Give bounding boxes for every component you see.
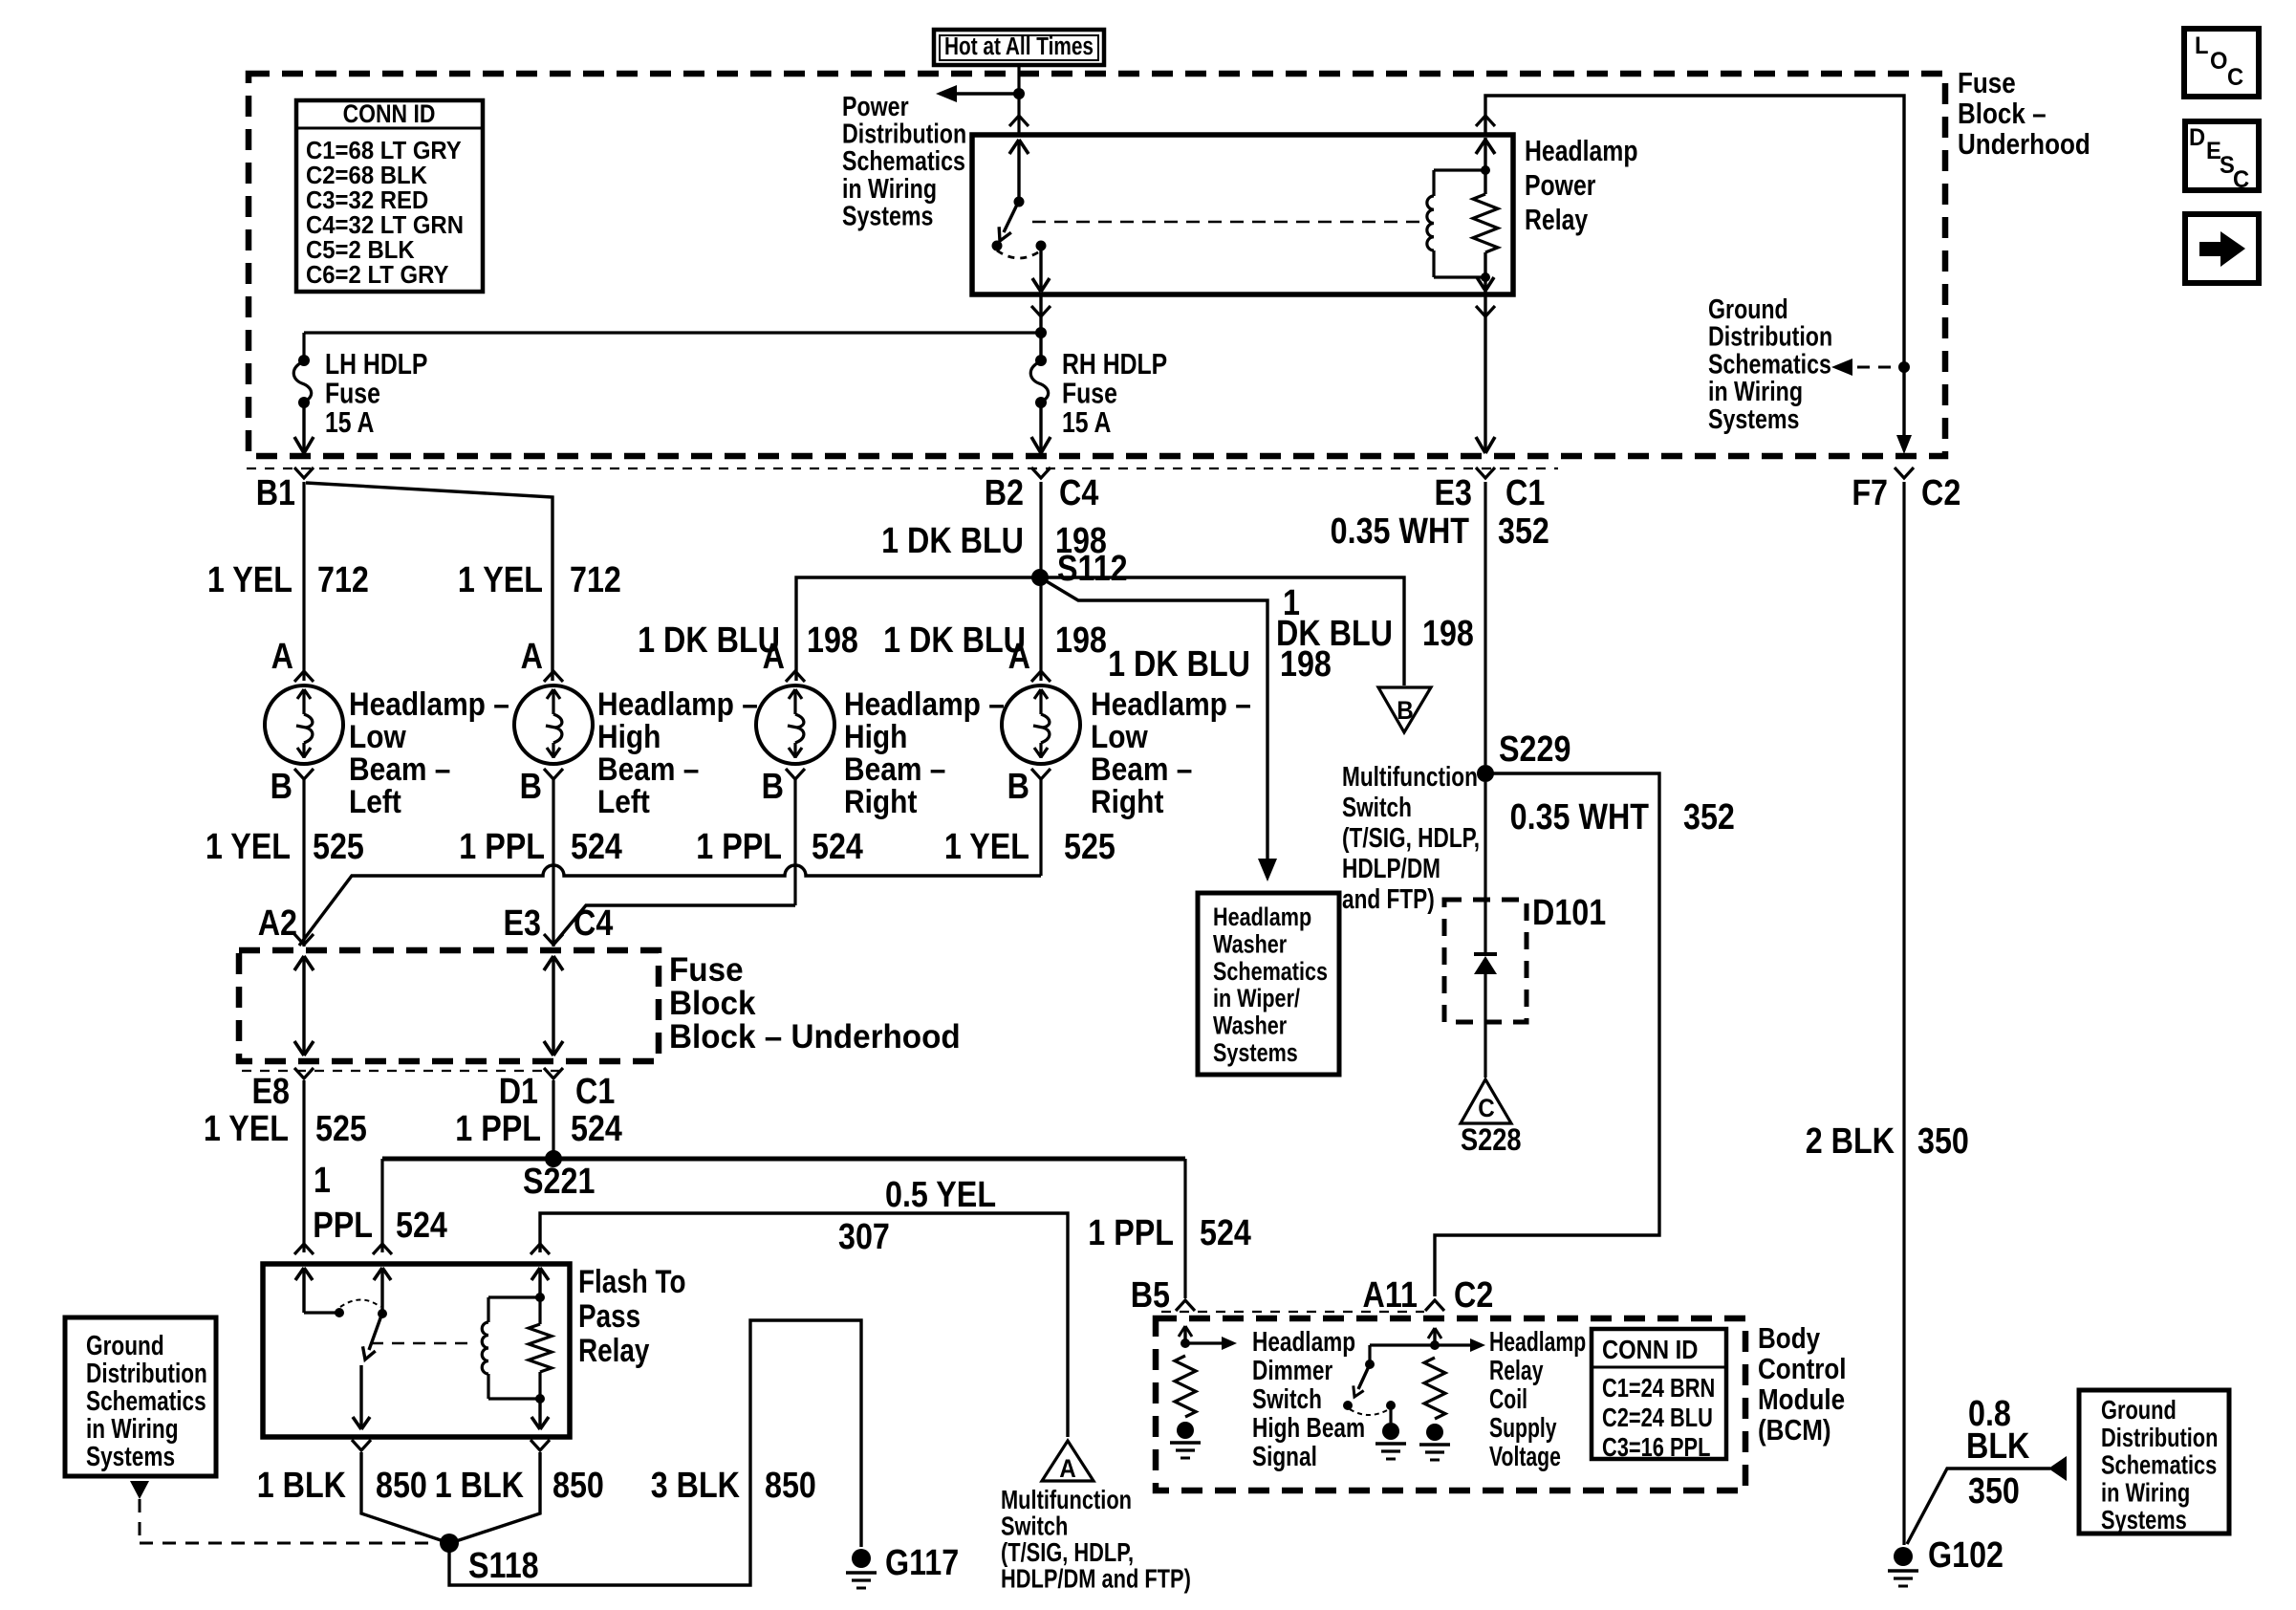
wire fuse feed horizontal	[304, 331, 1041, 334]
svg-text:G117: G117	[885, 1543, 959, 1583]
splice S118	[440, 1534, 459, 1553]
node A11 C2	[1425, 1300, 1444, 1311]
Hot at All Times box	[934, 30, 1104, 65]
svg-text:C2: C2	[1454, 1275, 1493, 1316]
svg-text:High: High	[597, 718, 661, 754]
svg-text:C2: C2	[1921, 473, 1960, 513]
svg-text:Supply: Supply	[1489, 1413, 1557, 1444]
svg-text:High: High	[844, 718, 907, 754]
svg-text:524: 524	[396, 1206, 447, 1246]
lamp terminal B chevron x=832	[786, 769, 805, 779]
svg-text:1 DK BLU: 1 DK BLU	[1108, 644, 1250, 685]
svg-text:Flash To: Flash To	[578, 1263, 686, 1299]
svg-text:C4: C4	[574, 903, 614, 944]
svg-text:Headlamp –: Headlamp –	[597, 685, 758, 722]
svg-text:A11: A11	[1363, 1275, 1418, 1316]
junction dot hot feed	[1013, 88, 1025, 99]
wire B2 to S112	[1039, 482, 1042, 681]
relay resistor	[1484, 138, 1486, 194]
svg-text:Headlamp: Headlamp	[1213, 903, 1311, 932]
relay switch contact right	[1036, 241, 1047, 251]
svg-text:Block –: Block –	[1958, 98, 2047, 131]
wire S221 bus	[382, 1157, 1185, 1162]
svg-text:1 YEL: 1 YEL	[207, 560, 292, 600]
svg-text:0.35 WHT: 0.35 WHT	[1331, 511, 1470, 552]
bcm headlamp dimmer input wire	[1183, 1326, 1186, 1343]
bcm relay coil supply wire	[1433, 1328, 1436, 1345]
wire S229 branch to A11	[1435, 773, 1659, 1296]
svg-text:B: B	[1397, 697, 1414, 725]
svg-text:C4: C4	[1059, 473, 1099, 513]
svg-text:15 A: 15 A	[1062, 405, 1111, 438]
svg-text:Washer: Washer	[1213, 930, 1288, 959]
node D1 C1	[544, 1068, 563, 1078]
svg-text:High Beam: High Beam	[1252, 1411, 1365, 1443]
connector chevron relay switch out	[1031, 306, 1051, 316]
svg-text:Headlamp: Headlamp	[1489, 1327, 1586, 1358]
wire lamp1 B down to A2	[302, 779, 305, 946]
wire yel 525 bus to A2	[299, 865, 1041, 946]
bcm dimmer resistor	[1175, 1356, 1196, 1417]
wire relay coil to E3	[1484, 294, 1486, 453]
svg-text:Systems: Systems	[1708, 402, 1799, 434]
svg-text:S221: S221	[523, 1162, 595, 1202]
svg-text:Left: Left	[597, 783, 650, 819]
svg-text:Relay: Relay	[578, 1332, 650, 1368]
svg-text:350: 350	[1917, 1121, 1969, 1162]
svg-text:D: D	[2189, 124, 2205, 151]
body control module dashed box	[1156, 1318, 1745, 1490]
bcm supply node	[1430, 1340, 1440, 1350]
svg-text:(T/SIG, HDLP,: (T/SIG, HDLP,	[1342, 821, 1480, 853]
svg-text:C1: C1	[575, 1072, 615, 1112]
flash relay pivot	[378, 1309, 387, 1318]
node E3 C4 lower	[544, 934, 563, 945]
svg-text:Dimmer: Dimmer	[1252, 1354, 1332, 1385]
svg-text:Fuse: Fuse	[1958, 67, 2016, 100]
svg-text:in Wiper/: in Wiper/	[1213, 985, 1300, 1013]
svg-text:C: C	[2227, 64, 2243, 91]
lamp terminal B chevron x=318	[294, 769, 314, 779]
relay switch alternate position dashed arc	[997, 250, 1041, 258]
svg-text:0.5 YEL: 0.5 YEL	[885, 1175, 996, 1215]
wire arrow to power distribution	[941, 92, 1019, 95]
svg-text:C3=32 RED: C3=32 RED	[306, 186, 428, 214]
wire flash relay coil to S118	[456, 1452, 540, 1541]
svg-text:0.35 WHT: 0.35 WHT	[1510, 797, 1650, 838]
svg-text:A: A	[271, 637, 293, 677]
svg-text:524: 524	[571, 1109, 622, 1149]
flash relay common entry wire	[302, 1268, 305, 1313]
headlamp bulb at x=318	[265, 685, 343, 764]
svg-text:Fuse: Fuse	[1062, 377, 1117, 409]
wire S112 to headlamp washer	[1040, 577, 1267, 862]
svg-text:Headlamp: Headlamp	[1252, 1325, 1355, 1357]
svg-text:D1: D1	[499, 1072, 538, 1112]
lamp terminal A chevron x=1089	[1031, 671, 1051, 682]
svg-text:A: A	[521, 637, 543, 677]
fuse block underhood dashed box	[249, 74, 1945, 456]
wire 3 BLK 850 to G117	[449, 1320, 861, 1585]
bcm connector thin dashed line	[1161, 1311, 1424, 1313]
svg-text:LH HDLP: LH HDLP	[325, 347, 427, 380]
svg-text:1 BLK: 1 BLK	[435, 1466, 525, 1506]
svg-text:Headlamp: Headlamp	[1525, 134, 1637, 166]
wire B1 to low beam left	[302, 482, 305, 681]
svg-text:15 A: 15 A	[325, 405, 374, 438]
svg-text:B: B	[271, 767, 292, 807]
svg-text:Control: Control	[1758, 1353, 1847, 1386]
bcm dimmer ground	[1177, 1422, 1194, 1439]
svg-text:Voltage: Voltage	[1489, 1442, 1561, 1472]
connector chevrons flash relay exits	[352, 1440, 371, 1450]
wire relay coil feed from top right	[1485, 96, 1904, 447]
LOC box	[2184, 29, 2259, 97]
svg-text:(BCM): (BCM)	[1758, 1414, 1831, 1447]
wire S221 branch to flash relay	[380, 1159, 383, 1252]
svg-text:D101: D101	[1532, 893, 1606, 933]
svg-text:352: 352	[1683, 797, 1735, 838]
bcm internal dimmer switch	[1370, 1343, 1435, 1346]
wire flash relay output to S118	[361, 1452, 444, 1541]
svg-text:352: 352	[1498, 511, 1549, 552]
svg-text:S118: S118	[468, 1546, 539, 1586]
svg-text:1 DK BLU: 1 DK BLU	[638, 620, 780, 661]
fuse RH HDLP 15A	[1035, 355, 1047, 366]
svg-text:C6=2 LT GRY: C6=2 LT GRY	[306, 261, 449, 289]
fuse block lower dashed box	[239, 950, 659, 1061]
svg-text:Beam –: Beam –	[1091, 751, 1192, 787]
svg-text:Block: Block	[669, 985, 757, 1022]
svg-text:712: 712	[570, 560, 621, 600]
svg-text:O: O	[2210, 48, 2227, 75]
junction dot ground distribution tap	[1898, 361, 1910, 373]
svg-text:198: 198	[1055, 620, 1107, 661]
relay coil	[1434, 168, 1485, 171]
svg-text:1 YEL: 1 YEL	[206, 827, 291, 867]
connector thin dashed line lower	[242, 1070, 566, 1072]
relay switch contact left	[992, 241, 1003, 251]
headlamp bulb at x=579	[514, 685, 593, 764]
svg-text:Multifunction: Multifunction	[1342, 760, 1478, 792]
svg-text:BLK: BLK	[1966, 1426, 2030, 1467]
relay switch common wire	[1017, 140, 1020, 202]
relay switch pivot	[1014, 197, 1025, 207]
svg-text:Left: Left	[349, 783, 401, 819]
wire relay switch output to fuses	[1039, 294, 1042, 360]
svg-text:C2=24 BLU: C2=24 BLU	[1602, 1403, 1713, 1432]
svg-text:A: A	[1059, 1455, 1076, 1483]
lamp terminal A chevron x=318	[294, 671, 314, 682]
relay coil node top	[1481, 165, 1490, 175]
headlamp bulb at x=832	[756, 685, 834, 764]
connector chevron relay coil top	[1476, 116, 1495, 126]
svg-text:Beam –: Beam –	[597, 751, 699, 787]
svg-text:Right: Right	[1091, 783, 1164, 819]
flash relay output wire	[359, 1365, 362, 1429]
svg-text:CONN ID: CONN ID	[1602, 1334, 1698, 1364]
svg-text:C: C	[1478, 1095, 1495, 1122]
svg-text:Fuse: Fuse	[669, 951, 744, 989]
svg-text:PPL: PPL	[313, 1206, 373, 1246]
svg-text:Hot at All Times: Hot at All Times	[944, 33, 1094, 60]
wire inside fuse block A2 to E8	[302, 956, 305, 1055]
diode D101	[1484, 900, 1486, 954]
svg-text:1 YEL: 1 YEL	[458, 560, 543, 600]
svg-text:Module: Module	[1758, 1383, 1845, 1417]
svg-text:198: 198	[807, 620, 858, 661]
svg-text:A: A	[763, 637, 785, 677]
svg-text:Ground: Ground	[2101, 1395, 2177, 1425]
node B5	[1176, 1300, 1195, 1311]
svg-text:1 BLK: 1 BLK	[257, 1466, 347, 1506]
svg-text:B: B	[520, 767, 542, 807]
svg-text:198: 198	[1280, 644, 1332, 685]
bcm supply arrow	[1435, 1343, 1472, 1346]
svg-text:B: B	[762, 767, 784, 807]
svg-text:2 BLK: 2 BLK	[1806, 1121, 1895, 1162]
svg-text:CONN ID: CONN ID	[343, 99, 436, 128]
svg-text:1: 1	[314, 1161, 331, 1201]
svg-text:Systems: Systems	[2101, 1506, 2187, 1535]
splice S221	[545, 1150, 562, 1167]
wire hot feed	[1017, 65, 1020, 135]
dashed reference to S118	[130, 1481, 149, 1499]
svg-text:E3: E3	[1435, 473, 1472, 513]
svg-text:307: 307	[838, 1217, 890, 1257]
wire D1 to S221	[552, 1080, 554, 1159]
headlamp power relay box U1	[972, 135, 1513, 294]
svg-text:850: 850	[765, 1466, 816, 1506]
svg-text:C1=24 BRN: C1=24 BRN	[1602, 1373, 1715, 1403]
svg-text:G102: G102	[1928, 1535, 2004, 1576]
svg-text:Headlamp –: Headlamp –	[1091, 685, 1251, 722]
ground distribution box left	[65, 1317, 216, 1476]
splice S229	[1477, 765, 1494, 782]
node E3 C1 wire down	[1484, 482, 1486, 765]
svg-text:525: 525	[1064, 827, 1116, 867]
svg-text:Headlamp –: Headlamp –	[844, 685, 1005, 722]
svg-text:C: C	[2233, 166, 2249, 193]
svg-text:in Wiring: in Wiring	[2101, 1478, 2190, 1508]
svg-text:Systems: Systems	[1213, 1039, 1298, 1068]
svg-text:525: 525	[313, 827, 364, 867]
svg-text:C1=68 LT GRY: C1=68 LT GRY	[306, 137, 462, 164]
fuse LH HDLP 15A	[298, 355, 310, 366]
svg-text:HDLP/DM: HDLP/DM	[1342, 852, 1440, 883]
svg-text:Distribution: Distribution	[2101, 1423, 2218, 1452]
svg-text:712: 712	[317, 560, 369, 600]
headlamp bulb at x=1089	[1002, 685, 1080, 764]
svg-text:C2=68 BLK: C2=68 BLK	[306, 162, 427, 189]
connector chevron relay pin top left	[1009, 116, 1029, 126]
svg-text:B2: B2	[985, 473, 1024, 513]
wire lamp3 B down	[793, 779, 796, 905]
svg-text:Pass: Pass	[578, 1297, 640, 1334]
junction dot fuse feed	[1035, 327, 1047, 338]
svg-text:Relay: Relay	[1525, 203, 1589, 235]
svg-text:Low: Low	[1091, 718, 1148, 754]
connector chevrons flash relay entries	[294, 1244, 314, 1254]
diode D101 dashed box	[1444, 900, 1527, 1022]
triangle connector A	[1042, 1441, 1094, 1481]
svg-text:Switch: Switch	[1342, 791, 1412, 822]
wire S112 to B triangle	[1040, 577, 1404, 685]
svg-text:1 PPL: 1 PPL	[455, 1109, 541, 1149]
lamp terminal B chevron x=579	[544, 769, 563, 779]
splice S112	[1031, 569, 1049, 586]
wire B1 branch to high beam left	[306, 483, 552, 681]
svg-text:Relay: Relay	[1489, 1356, 1543, 1386]
connector boundary thin dashed line	[247, 468, 1558, 469]
ground G102	[1894, 1547, 1913, 1566]
arrow box	[2185, 214, 2259, 283]
svg-text:A2: A2	[258, 903, 297, 944]
wire D101 to S228	[1484, 1022, 1486, 1077]
lamp terminal A chevron x=579	[544, 671, 563, 682]
flash relay NC entry wire	[380, 1268, 383, 1314]
wire S112 to high beam right	[796, 577, 1040, 681]
svg-text:B: B	[1007, 767, 1029, 807]
svg-text:B5: B5	[1131, 1275, 1170, 1316]
node A2	[294, 934, 314, 945]
svg-text:Headlamp –: Headlamp –	[349, 685, 509, 722]
bcm conn id table	[1592, 1329, 1726, 1459]
node B1	[294, 468, 314, 478]
relay switch output wire	[1039, 246, 1042, 292]
svg-text:E8: E8	[252, 1072, 290, 1112]
svg-text:1 DK BLU: 1 DK BLU	[881, 521, 1024, 561]
svg-text:Block – Underhood: Block – Underhood	[669, 1018, 961, 1055]
flash relay alternate dashed arc	[340, 1300, 380, 1308]
svg-text:1 YEL: 1 YEL	[944, 827, 1029, 867]
wire lamp2 B down to E3 C4	[552, 779, 554, 946]
svg-text:Washer: Washer	[1213, 1012, 1288, 1040]
svg-text:S228: S228	[1461, 1123, 1522, 1158]
bcm dimmer node	[1180, 1338, 1190, 1348]
svg-text:Beam –: Beam –	[844, 751, 945, 787]
svg-text:524: 524	[812, 827, 863, 867]
svg-text:Switch: Switch	[1252, 1382, 1322, 1414]
svg-text:E3: E3	[504, 903, 541, 944]
svg-text:and FTP): and FTP)	[1342, 882, 1435, 914]
flash relay contact left	[335, 1308, 344, 1317]
svg-text:RH HDLP: RH HDLP	[1062, 347, 1167, 380]
svg-text:Systems: Systems	[86, 1440, 175, 1471]
svg-text:524: 524	[1200, 1213, 1251, 1253]
dashed pointer to ground distribution	[1857, 366, 1902, 369]
bcm supply ground	[1426, 1424, 1443, 1441]
svg-text:Power: Power	[1525, 168, 1595, 201]
ground distribution box right	[2079, 1390, 2229, 1534]
svg-text:Low: Low	[349, 718, 406, 754]
svg-text:Schematics: Schematics	[1213, 958, 1328, 987]
headlamp washer schematics box	[1198, 893, 1339, 1075]
svg-text:C3=16 PPL: C3=16 PPL	[1602, 1432, 1710, 1462]
svg-text:1 PPL: 1 PPL	[1088, 1213, 1174, 1253]
svg-text:1 PPL: 1 PPL	[696, 827, 782, 867]
wire inside fuse block C4 to D1	[552, 956, 554, 1055]
svg-text:525: 525	[315, 1109, 367, 1149]
wire 0.5 yel 307 from flash relay to A triangle	[540, 1213, 1068, 1437]
flash relay dashed actuation link	[371, 1342, 476, 1344]
svg-text:1 PPL: 1 PPL	[459, 827, 545, 867]
svg-text:B1: B1	[256, 473, 295, 513]
relay switch arm	[1004, 205, 1017, 232]
bcm supply resistor	[1424, 1358, 1445, 1419]
node B2 C4	[1031, 468, 1051, 478]
svg-text:Beam –: Beam –	[349, 751, 450, 787]
connector chevron relay coil bottom	[1476, 306, 1495, 316]
lamp terminal B chevron x=1089	[1031, 769, 1051, 779]
svg-text:Underhood: Underhood	[1958, 128, 2090, 162]
svg-text:Systems: Systems	[842, 200, 933, 231]
svg-text:L: L	[2195, 33, 2209, 59]
svg-text:C4=32 LT GRN: C4=32 LT GRN	[306, 211, 464, 239]
relay actuation dashed link	[1032, 221, 1420, 223]
DESC box	[2185, 121, 2259, 190]
wire S221 to B5	[1183, 1159, 1186, 1298]
wire lamp4 B down	[1039, 779, 1042, 876]
ground G117	[852, 1549, 871, 1568]
flash relay arm	[369, 1316, 381, 1350]
svg-text:HDLP/DM and FTP): HDLP/DM and FTP)	[1001, 1564, 1191, 1594]
svg-text:Body: Body	[1758, 1322, 1820, 1356]
bcm dimmer arrow	[1185, 1341, 1224, 1344]
CONN ID table top	[296, 100, 483, 292]
wire ppl 524 bus to E3 C4	[553, 905, 795, 945]
svg-text:3 BLK: 3 BLK	[651, 1466, 741, 1506]
svg-text:1 YEL: 1 YEL	[204, 1109, 289, 1149]
svg-text:198: 198	[1422, 614, 1474, 654]
svg-text:S229: S229	[1499, 729, 1570, 770]
svg-text:F7: F7	[1852, 473, 1888, 513]
triangle connector B	[1378, 687, 1431, 732]
node F7 C2	[1895, 468, 1914, 478]
flash relay coil assembly	[538, 1268, 541, 1297]
svg-text:Schematics: Schematics	[2101, 1450, 2217, 1480]
wire E8 to flash relay	[302, 1080, 305, 1252]
svg-text:850: 850	[376, 1466, 427, 1506]
node E8	[294, 1068, 314, 1078]
svg-text:S112: S112	[1057, 549, 1128, 589]
svg-text:Fuse: Fuse	[325, 377, 380, 409]
svg-text:350: 350	[1968, 1471, 2020, 1512]
lamp terminal A chevron x=832	[786, 671, 805, 682]
flash to pass relay box K1	[263, 1264, 570, 1437]
svg-text:C1: C1	[1505, 473, 1545, 513]
svg-text:850: 850	[552, 1466, 604, 1506]
node E3 C1	[1476, 468, 1495, 478]
svg-text:Right: Right	[844, 783, 918, 819]
wire F7 to G102 2 BLK 350	[1902, 482, 1905, 1545]
svg-text:C5=2 BLK: C5=2 BLK	[306, 236, 415, 264]
relay coil node bottom	[1481, 272, 1490, 282]
triangle connector C S228	[1461, 1079, 1511, 1123]
svg-text:524: 524	[571, 827, 622, 867]
svg-text:Coil: Coil	[1489, 1384, 1527, 1415]
svg-text:A: A	[1008, 637, 1030, 677]
svg-text:1 DK BLU: 1 DK BLU	[883, 620, 1026, 661]
wire S229 to D101	[1484, 782, 1486, 898]
wire 0.8 BLK 350	[1907, 1469, 2050, 1544]
svg-text:Signal: Signal	[1252, 1440, 1317, 1471]
